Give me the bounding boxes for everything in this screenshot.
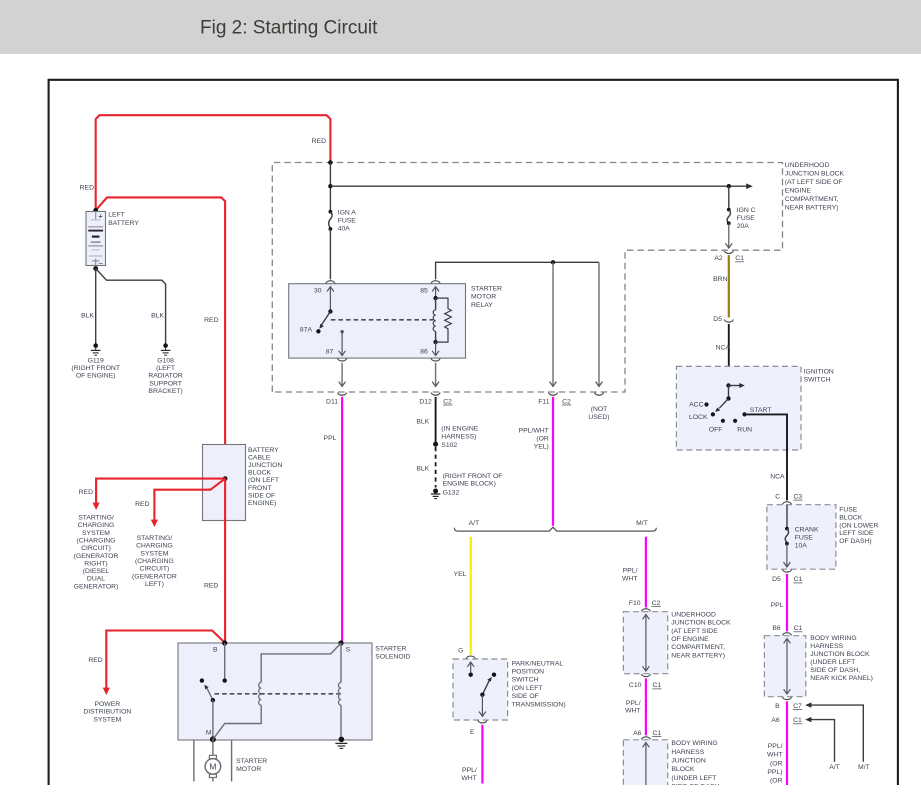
svg-text:OFF: OFF [709,427,723,434]
svg-text:LOCK: LOCK [689,414,708,421]
svg-text:A/T: A/T [469,520,480,527]
relay pin 30 arrow up [327,287,334,312]
node junction at y186 [328,184,332,188]
label STARTING/CHARGING SYSTEM (GENERATOR RIGHT) [74,515,119,591]
label A/T (right) [829,764,840,771]
label BLK (left) [81,313,94,320]
label M [206,729,212,736]
wire PPL fuse to B6 [786,574,788,632]
label C1 (b6) [793,625,802,632]
arrow A/T to A6/C1 [805,717,834,762]
wire PPL from D11 to solenoid S [341,397,343,643]
label NCA [716,344,731,351]
label RUN [737,427,752,434]
label C2 (engine harness) [443,398,452,405]
label C10 [629,682,642,689]
label FUSE BLOCK [839,507,878,546]
label C7 [793,703,802,710]
label RED (x225 lower) [204,583,218,590]
underhood junction block outline (dashed) [272,163,782,393]
wire: relay 86 to D12 [432,363,439,387]
label PPL/WHT (OR PPL) (OR [767,743,783,784]
svg-text:M: M [209,762,216,772]
svg-text:87A: 87A [300,326,313,333]
connector bump C10/C1 [641,674,650,677]
svg-text:M/T: M/T [858,764,870,771]
underhood junction block small box [623,612,667,674]
park/neutral position switch box [453,659,508,720]
solenoid case ground [335,737,347,749]
svg-text:S102: S102 [441,442,457,449]
label YEL [454,571,467,578]
node junction at 553 [551,260,555,264]
label CRANK FUSE 10A [795,527,819,550]
label START [750,407,772,414]
label C1 (a6 center) [652,730,661,737]
label BODY WIRING HARNESS JUNCTION BLOCK (center) [671,740,719,791]
label: STARTER MOTOR RELAY [471,286,502,309]
label PPL/WHT (m/t) [622,568,638,583]
label C1 (d5) [793,576,802,583]
label E [470,729,475,736]
svg-text:G132: G132 [443,490,460,497]
label 86 [420,349,428,356]
starter motor M1 [205,739,221,781]
wire red branch to power distribution [103,631,225,696]
wire PPL/WHT from E [481,725,483,784]
wire red branch to charging system left [151,479,225,527]
label LOCK [689,414,708,421]
svg-text:C1: C1 [794,625,803,632]
label G108 [148,357,183,395]
label G132 [443,490,460,497]
label: underhood junction block [785,162,845,212]
label (IN ENGINE HARNESS) [441,426,478,441]
wire: red battery to junction block (vertical x225) [96,197,225,478]
label D12 [419,398,432,405]
connector bump C/C3 [783,502,792,505]
svg-text:F10: F10 [629,600,641,607]
brace A/T-M/T split [454,527,656,531]
wire: relay 85 up and right to F11/not-used [436,262,599,385]
svg-text:D5: D5 [772,576,781,583]
label G [458,648,463,655]
label S102 [441,442,457,449]
svg-text:PPL/WHT: PPL/WHT [461,767,477,782]
svg-text:PPL: PPL [324,435,337,442]
label M/T [636,520,648,527]
connector bump E [478,720,487,723]
wire dashed BLK to G132 [435,447,437,488]
wire PPL/WHT C10 to A6 [645,678,647,735]
label S [346,646,351,653]
svg-text:PPL/WHT: PPL/WHT [625,700,641,715]
svg-text:A6: A6 [633,730,642,737]
label G119 [71,357,120,379]
label RED (x225 upper) [204,317,218,324]
fuse block box (dashed) [767,505,836,570]
svg-text:START: START [750,407,772,414]
connector bump pin 30 [326,281,335,284]
svg-text:ACC: ACC [689,402,703,409]
label RED (top) [312,138,326,145]
contact dot RUN [733,419,737,423]
svg-text:D11: D11 [326,398,338,405]
svg-text:NCA: NCA [716,344,731,351]
label: IGN A FUSE 40A [338,210,357,233]
svg-text:RUN: RUN [737,427,752,434]
svg-text:BLK: BLK [416,466,429,473]
battery positive node [93,208,98,213]
label ACC [689,402,703,409]
svg-text:S: S [346,646,351,653]
label BODY WIRING HARNESS JUNCTION BLOCK (right) [810,635,873,682]
wire: relay 87 to D11 [339,363,346,387]
svg-text:Fig 2: Starting Circuit: Fig 2: Starting Circuit [200,17,378,38]
splice S102 [433,442,438,447]
svg-text:B6: B6 [772,625,781,632]
svg-text:A2: A2 [714,255,723,262]
svg-text:RED: RED [135,501,149,508]
label 87A [300,326,313,333]
svg-text:RED: RED [88,657,102,664]
wire: junction down to F11 [550,262,557,386]
label PPL/WHT (e) [461,767,477,782]
wire red branch to charging system right [93,479,226,510]
label RED (power dist) [88,657,102,664]
svg-text:C1: C1 [793,717,802,724]
ground G119 [91,343,101,355]
svg-text:B: B [775,703,780,710]
body wiring harness junction block 2 (dashed, clipped) [623,740,667,795]
relay pin 85 arrow up [432,287,439,298]
label PPL/WHT (c10) [625,700,641,715]
connector bump A6/C1 (center) [641,737,650,740]
label STARTING/CHARGING SYSTEM (GENERATOR LEFT) [132,535,177,588]
label F11 [538,398,549,405]
svg-text:A/T: A/T [829,764,840,771]
label POWER DISTRIBUTION SYSTEM [83,701,131,723]
label C1 (a2) [735,255,744,262]
svg-text:BLK: BLK [416,418,429,425]
label B [213,646,218,653]
label PPL [324,435,337,442]
solenoid hold-in winding S to ground [338,643,341,739]
starter solenoid box [178,643,372,740]
svg-text:A6: A6 [771,717,780,724]
label RED (branch 1) [79,489,93,496]
svg-text:RED: RED [204,317,218,324]
header band [0,0,921,54]
solenoid arm to M [212,700,214,739]
svg-text:(IN ENGINEHARNESS): (IN ENGINEHARNESS) [441,426,478,441]
svg-text:C7: C7 [793,703,802,710]
svg-text:C2: C2 [562,398,571,405]
solenoid pull-in winding path M to S [213,643,341,739]
label IGNITION SWITCH [804,368,834,383]
wire: red battery feed top [96,115,331,209]
svg-text:RED: RED [204,583,218,590]
label 87 [326,349,334,356]
svg-text:C: C [775,493,780,500]
wire YEL (A/T branch) [470,537,472,655]
label PPL/WHT (OR YEL) [519,428,549,451]
node M terminal [210,736,216,742]
wire BRN [728,255,730,317]
svg-text:C2: C2 [652,600,661,607]
starter motor cables (left/right) [194,740,232,782]
label UNDERHOOD JUNCTION BLOCK (small) [671,611,731,659]
label STARTER MOTOR [236,758,267,773]
svg-text:(RIGHT FRONT OFENGINE BLOCK): (RIGHT FRONT OFENGINE BLOCK) [443,473,503,488]
battery cable junction block [203,445,246,521]
svg-text:PPL: PPL [771,602,784,609]
svg-text:D12: D12 [419,398,432,405]
wire PPL/WHT (M/T branch) to F10 [645,537,647,608]
ground G132 [431,489,440,499]
label BLK (g132) [416,466,429,473]
label A6 (center) [633,730,642,737]
connector bump F10/C2 [641,609,650,612]
label BLK (right) [151,313,164,320]
label C3 [793,493,802,500]
wire PPL/WHT from F11 to brace [552,397,554,526]
connector bump D12 [431,393,440,396]
label OFF [709,427,723,434]
connector bump D5/C1 [783,570,792,573]
svg-text:G: G [458,648,463,655]
svg-text:30: 30 [314,288,322,295]
label (RIGHT FRONT OF ENGINE BLOCK) [443,473,503,488]
svg-text:M/T: M/T [636,520,648,527]
wire BLK from D12 to S102 [435,397,437,444]
label BATTERY CABLE JUNCTION BLOCK [248,447,282,507]
svg-text:YEL: YEL [454,571,467,578]
relay switch arm 30-87A [316,309,332,333]
solenoid B stub [223,643,227,683]
svg-text:IGNITIONSWITCH: IGNITIONSWITCH [804,368,834,383]
connector bump pin 85 [431,281,440,284]
connector bump B6/C1 [783,633,792,636]
svg-text:86: 86 [420,349,428,356]
contact dot ACC [704,402,708,406]
label C2 (f10) [652,600,661,607]
svg-text:PPL/WHT: PPL/WHT [622,568,638,583]
svg-text:NCA: NCA [770,473,785,480]
svg-text:C3: C3 [794,493,803,500]
label C [775,493,780,500]
label 30 [314,288,322,295]
svg-text:+: + [98,211,103,220]
contact dot START [742,412,746,416]
svg-text:87: 87 [326,349,334,356]
label 85 [420,288,428,295]
svg-text:RED: RED [79,489,93,496]
node: junction dot at dashed box top [328,160,333,165]
svg-text:BLK: BLK [81,313,94,320]
arrow into not-used [596,382,603,387]
connector bump pin 86 [431,358,440,361]
arrow M/T to B/C7 [805,702,863,761]
relay pin 86 stem and arrow down [432,342,439,356]
ignition switch box [676,366,801,450]
label D11 [326,398,338,405]
svg-text:STARTING/CHARGINGSYSTEM(CHARGI: STARTING/CHARGINGSYSTEM(CHARGINGCIRCUIT)… [132,535,177,588]
connector bump F11 [549,393,558,396]
label (NOT USED) [588,406,609,421]
label: LEFT BATTERY [108,212,139,227]
ground G108 [161,343,171,355]
wire PPL/WHT down from B/C7 [786,701,788,785]
svg-text:STARTERSOLENOID: STARTERSOLENOID [375,645,410,660]
svg-text:RED: RED [80,185,94,192]
battery negative node [93,266,98,271]
label M/T (right) [858,764,870,771]
svg-text:C1: C1 [735,255,744,262]
body wiring block 1 internal arrows [784,639,791,695]
fuse IGN C 20A [725,186,732,248]
relay coil between 85 and 86 [433,296,438,344]
fuse IGN A 40A [329,210,333,280]
svg-text:F11: F11 [538,398,549,405]
wire: horizontal feed to IGN C fuse [330,183,752,189]
wire START output [745,414,788,500]
relay U1: starter motor relay box [289,284,466,358]
svg-text:(NOTUSED): (NOTUSED) [588,406,609,421]
svg-text:C1: C1 [653,730,662,737]
node B terminal [222,640,227,645]
label BRN [713,276,727,283]
label STARTER SOLENOID [375,645,410,660]
contact dot LOCK [711,412,715,416]
label D5 [713,316,722,323]
label C1 (c10) [652,682,661,689]
svg-text:M: M [206,729,212,736]
svg-text:C1: C1 [653,682,662,689]
label RED (battery left) [80,185,94,192]
connector bump pin 87 [338,358,347,361]
svg-text:E: E [470,729,475,736]
label PPL (right) [771,602,784,609]
battery B1: LEFT BATTERY [86,211,106,266]
contact dot OFF [721,419,725,423]
label BLK (d12) [416,418,429,425]
label NCA (start) [770,473,785,480]
body wiring harness junction block 1 (dashed) [764,636,805,697]
svg-text:PPL/WHT(ORPPL)(OR: PPL/WHT(ORPPL)(OR [767,743,783,784]
label PARK/NEUTRAL POSITION SWITCH [512,660,566,708]
svg-text:BLK: BLK [151,313,164,320]
label RED (branch 2) [135,501,149,508]
connector bump G [466,656,475,659]
node junction at IGN C branch [727,184,731,188]
relay pin 87 stem and arrow down [339,330,346,356]
svg-text:D5: D5 [713,316,722,323]
ignition switch internals [715,383,745,412]
wire: battery negative to G119 [95,269,97,344]
label A6 (right column) [771,717,780,724]
svg-text:BRN: BRN [713,276,727,283]
wire: battery negative to G108 [96,269,166,344]
relay actuator dashed link [331,319,433,321]
label F10 [629,600,641,607]
node S terminal [338,640,343,645]
relay suppression resistor parallel loop [436,298,452,342]
svg-text:B: B [213,646,218,653]
body wiring block 2 internal arrow [643,743,650,786]
label B [775,703,780,710]
connector bump D11 [338,393,347,396]
label C2 (f11) [562,398,571,405]
label C1 (a6 right) [793,717,802,724]
connector bump not-used [595,393,604,396]
label IGN C FUSE 20A [737,207,756,230]
svg-text:RED: RED [312,138,326,145]
label D5 (fuse out) [772,576,781,583]
wire red main down to solenoid B [224,479,226,643]
label A2 [714,255,723,262]
solenoid contact and arm [200,678,215,702]
svg-text:C10: C10 [629,682,642,689]
svg-text:C2: C2 [443,398,452,405]
wire: feed to IGN A fuse [329,163,331,211]
connector bump A2 [724,251,733,254]
inline connector D5 [724,320,733,323]
label A/T [469,520,480,527]
svg-text:C1: C1 [794,576,803,583]
connector bump B/C7 [783,697,792,700]
svg-text:85: 85 [420,288,428,295]
fuse CRANK 10A [784,505,791,567]
solenoid actuator dashed link [215,693,339,695]
wire NCA to ignition switch [728,324,730,386]
label B6 [772,625,781,632]
park/neutral internals [467,662,496,716]
node: junction dot in battery cable block [223,476,228,481]
underhood small box internal arrows [643,615,650,672]
